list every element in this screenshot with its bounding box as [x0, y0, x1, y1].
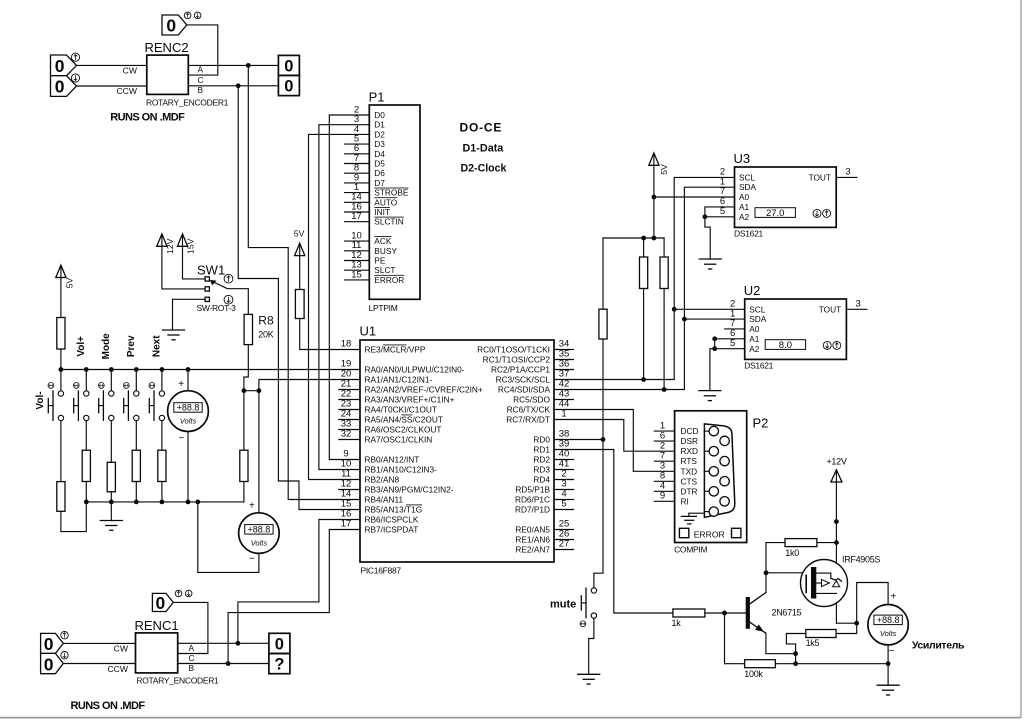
- svg-text:TOUT: TOUT: [819, 304, 841, 314]
- svg-text:RC6/TX/CK: RC6/TX/CK: [507, 405, 551, 415]
- junction node B: [236, 83, 241, 88]
- svg-text:SCL: SCL: [749, 304, 766, 314]
- svg-text:SLCTIN: SLCTIN: [374, 217, 404, 227]
- svg-text:5V: 5V: [65, 277, 75, 288]
- wire CCW display to RENC2: [77, 85, 147, 87]
- wire Vol+ resistor to bottom bus: [85, 482, 87, 502]
- svg-text:5: 5: [720, 206, 725, 217]
- logic probe display (RENC1 channel C): [152, 593, 173, 613]
- wire net RX (U1 pin1 to P2 RXD): [554, 420, 675, 452]
- wire U3 A2 to ground: [705, 217, 710, 259]
- svg-text:D1: D1: [374, 120, 385, 130]
- junction RA0 bus dots: [59, 367, 191, 372]
- svg-text:RD0: RD0: [533, 435, 550, 445]
- actuator icon down (U2): [823, 341, 831, 349]
- svg-text:SW1: SW1: [197, 263, 225, 278]
- svg-text:IRF4905S: IRF4905S: [842, 554, 880, 564]
- junction U3 A2: [703, 214, 708, 219]
- wire base node to 100k: [724, 613, 726, 664]
- svg-text:ERROR: ERROR: [374, 275, 404, 285]
- svg-text:RD5/P1B: RD5/P1B: [515, 485, 550, 495]
- junction bottom bus dots: [84, 500, 200, 505]
- svg-text:18: 18: [341, 339, 352, 350]
- actuator icon up (U3): [823, 209, 831, 217]
- P2 pin labels: [681, 426, 699, 506]
- svg-text:RXD: RXD: [681, 446, 699, 456]
- button Prev: [123, 335, 139, 450]
- svg-text:RE0/AN5: RE0/AN5: [515, 525, 550, 535]
- svg-text:SLCT: SLCT: [374, 265, 395, 275]
- wire RENC2 A pin to indicator box: [188, 64, 278, 66]
- button Vol-: [35, 370, 64, 482]
- svg-text:mute: mute: [550, 599, 576, 611]
- junction node A: [246, 63, 251, 68]
- power symbol 15V: [177, 234, 205, 279]
- transistor Q2 2N6715: [746, 593, 802, 634]
- svg-text:100k: 100k: [744, 669, 763, 679]
- wire 1k0 to gate node: [765, 543, 767, 573]
- svg-text:U1: U1: [360, 324, 377, 339]
- svg-text:C: C: [189, 653, 195, 663]
- svg-text:RA2/AN2/VREF-/CVREF/C2IN+: RA2/AN2/VREF-/CVREF/C2IN+: [365, 385, 483, 395]
- wire net RD0/mute (U1 pin38): [554, 439, 603, 441]
- svg-text:DTR: DTR: [681, 486, 698, 496]
- junction U2 SDA: [682, 317, 687, 322]
- svg-text:17: 17: [351, 211, 362, 222]
- U2 pin numbers: [730, 299, 861, 349]
- wire CCW display to RENC1: [63, 663, 135, 665]
- wire bottom bus to ground: [110, 502, 112, 521]
- svg-text:SDA: SDA: [739, 182, 757, 192]
- svg-text:PE: PE: [374, 256, 386, 266]
- svg-text:D6: D6: [374, 168, 385, 178]
- wire 1k5 right to output node: [836, 623, 857, 633]
- resistor 100k: [725, 660, 776, 679]
- wire 5V pullup rail: [603, 237, 664, 239]
- logic state indicator (RENC1 A): [269, 633, 290, 653]
- wire output node to voltmeter plus: [857, 583, 888, 624]
- svg-text:5V: 5V: [659, 164, 669, 175]
- wire U2 A2: [715, 348, 745, 350]
- junction voltmeter minus: [886, 661, 891, 666]
- svg-text:PIC16F887: PIC16F887: [361, 566, 402, 576]
- wire U2 SCL to bus: [674, 308, 745, 310]
- svg-text:R8: R8: [258, 314, 274, 328]
- actuator icon down (display B): [71, 74, 79, 82]
- svg-text:B: B: [198, 85, 204, 95]
- svg-text:+88.8: +88.8: [877, 615, 900, 625]
- svg-text:5: 5: [730, 338, 735, 349]
- svg-text:A0: A0: [749, 324, 760, 334]
- U1 right stub pins 34,35,36,43,40,41,2,3,4,5,25,26,27: [554, 350, 574, 550]
- svg-text:1k5: 1k5: [806, 638, 820, 648]
- svg-text:17: 17: [341, 519, 352, 530]
- svg-text:RC0/T1OSO/T1CKI: RC0/T1OSO/T1CKI: [477, 345, 550, 355]
- svg-text:A: A: [198, 65, 204, 75]
- power symbol 5V (button ladder): [56, 265, 75, 317]
- ground (DB9 shell): [681, 513, 704, 524]
- svg-text:TXD: TXD: [681, 466, 698, 476]
- logic probe display (RENC2 channel C): [162, 15, 187, 36]
- wire RA1 node to U1 pin20: [259, 380, 360, 391]
- svg-text:3: 3: [845, 167, 850, 178]
- svg-text:D7: D7: [374, 178, 385, 188]
- button Next: [149, 335, 165, 450]
- resistor (Mode ladder): [107, 462, 115, 492]
- wire Next resistor to bottom bus: [161, 482, 163, 502]
- svg-text:RB6/ICSPCLK: RB6/ICSPCLK: [365, 515, 419, 525]
- wire gate node to MOSFET gate: [766, 572, 806, 574]
- svg-text:RB2/AN8: RB2/AN8: [365, 475, 400, 485]
- svg-text:P1: P1: [369, 90, 385, 105]
- wire RENC1 B pin to indicator: [178, 663, 269, 665]
- svg-text:RE1/AN6: RE1/AN6: [515, 535, 550, 545]
- svg-text:COMPIM: COMPIM: [674, 545, 707, 555]
- svg-text:DS1621: DS1621: [744, 360, 773, 370]
- wire net D1 (P1 pin3 to U1 RB1 pin10): [319, 125, 369, 470]
- svg-text:8.0: 8.0: [779, 340, 792, 351]
- svg-text:+12V: +12V: [826, 457, 846, 467]
- resistor 1k (base): [672, 609, 746, 628]
- resistor 1k5: [806, 630, 837, 649]
- DB9 connector graphic: [704, 424, 734, 517]
- resistor (Vol- ladder): [57, 482, 65, 512]
- wire rail to SCL pullup resistor: [643, 238, 645, 257]
- junction rail at SCL resistor: [641, 236, 646, 241]
- actuator icon up (display C): [184, 12, 191, 19]
- junction 1k5 bottom: [793, 661, 798, 666]
- svg-text:RD2: RD2: [533, 455, 550, 465]
- wire U2 A1: [715, 339, 745, 349]
- svg-text:RB3/AN9/PGM/C12IN2-: RB3/AN9/PGM/C12IN2-: [365, 485, 454, 495]
- wire Prev resistor to bottom bus: [135, 482, 137, 502]
- svg-text:RB5/AN13/T1G: RB5/AN13/T1G: [365, 505, 423, 515]
- P1 stub pins 5-9,1,14,16,17,10-13,15: [345, 144, 370, 280]
- wire U3 A1: [705, 207, 735, 217]
- wire Mode resistor to bottom bus: [110, 492, 112, 502]
- P1 pin numbers: [351, 104, 362, 280]
- svg-text:RC1/T1OSI/CCP2: RC1/T1OSI/CCP2: [483, 355, 551, 365]
- svg-text:CTS: CTS: [681, 476, 698, 486]
- svg-text:3: 3: [856, 299, 861, 310]
- svg-text:1k: 1k: [672, 618, 682, 628]
- voltmeter (amplifier output): [868, 591, 908, 657]
- svg-text:TOUT: TOUT: [809, 172, 831, 182]
- U1 right pin numbers: [559, 339, 570, 550]
- svg-text:DSR: DSR: [681, 436, 699, 446]
- wire mute to ground: [589, 618, 594, 674]
- connector P1 (LPTPIM): [369, 90, 420, 313]
- junction +12V to 1k0: [834, 540, 839, 545]
- U3 pin numbers: [720, 167, 851, 217]
- junction on +12V rail: [834, 519, 839, 524]
- P2 pin numbers: [660, 420, 665, 501]
- svg-text:20K: 20K: [258, 330, 273, 340]
- wire SW1 pole3 to ground: [173, 299, 206, 330]
- U1 left pin labels: [365, 345, 483, 535]
- wire RA1 node bridge: [244, 390, 259, 392]
- svg-text:5: 5: [561, 499, 566, 510]
- svg-text:RENC2: RENC2: [145, 40, 189, 55]
- ground (U2): [699, 391, 721, 401]
- svg-text:RI: RI: [681, 496, 689, 506]
- logic probe display (RENC1 channel B state): [41, 653, 64, 674]
- U3 TOUT stub pin3: [836, 176, 857, 178]
- svg-text:D1-Data: D1-Data: [463, 143, 505, 155]
- svg-text:Mode: Mode: [101, 333, 112, 360]
- ERROR indicator squares: [679, 528, 741, 539]
- svg-text:−: −: [178, 433, 184, 444]
- svg-text:1k0: 1k0: [785, 548, 799, 558]
- ground (mute): [578, 674, 600, 684]
- power symbol 5V (MCLR pullup): [294, 229, 305, 290]
- wire net SCK/SCL (U1 pin37 to DS1621 bus): [554, 177, 735, 379]
- U2 TOUT stub pin3: [846, 308, 867, 310]
- resistor (SCL pullup): [640, 257, 648, 289]
- wire U3 A2: [705, 216, 735, 218]
- junction emitter node: [793, 651, 798, 656]
- svg-text:Vol-: Vol-: [35, 391, 46, 409]
- wire 100k to voltmeter minus node: [775, 663, 888, 665]
- wire RENC2 C pin to display C: [187, 25, 218, 75]
- wire 1k5 left leg: [786, 634, 805, 664]
- svg-text:−: −: [249, 554, 255, 565]
- actuator icon up (U2): [833, 341, 841, 349]
- svg-text:Volts: Volts: [880, 629, 897, 638]
- svg-text:+88.8: +88.8: [248, 525, 271, 535]
- svg-text:STROBE: STROBE: [374, 188, 409, 198]
- power symbol 5V (I2C pullups): [649, 153, 669, 238]
- button Vol+: [73, 336, 89, 450]
- wire voltmeter2 minus to bottom bus: [198, 502, 259, 573]
- P2 stub pins: [654, 431, 674, 501]
- actuator icon down (SW1): [224, 295, 233, 304]
- svg-text:Prev: Prev: [126, 335, 137, 357]
- power symbol 12V: [157, 234, 205, 289]
- svg-text:2N6715: 2N6715: [772, 608, 802, 618]
- SW1 wiper arm with arrowhead: [210, 280, 249, 315]
- wire 5V resistor to U1 pin18: [300, 319, 360, 350]
- svg-text:RA5/AN4/SS/C2OUT: RA5/AN4/SS/C2OUT: [365, 415, 443, 425]
- wire CW display to RENC2: [77, 64, 147, 66]
- svg-text:D2: D2: [374, 129, 385, 139]
- resistor (Prev ladder): [132, 450, 140, 481]
- svg-text:CW: CW: [114, 644, 129, 654]
- svg-text:+: +: [249, 501, 255, 512]
- U1 left pin numbers: [341, 339, 352, 530]
- svg-text:D0: D0: [374, 110, 385, 120]
- svg-text:RD6/P1C: RD6/P1C: [515, 495, 550, 505]
- actuator icon down (RENC1 display C): [185, 590, 192, 597]
- svg-text:D5: D5: [374, 159, 385, 169]
- resistor (RA1 ladder): [240, 450, 248, 481]
- resistor 1k0: [766, 539, 836, 558]
- wire emitter to 1k5 node: [766, 633, 796, 654]
- svg-text:9: 9: [660, 490, 665, 501]
- wire net SDI/SDA (U1 pin42 to DS1621 bus): [554, 187, 735, 389]
- logic state indicator (B): [278, 75, 299, 95]
- svg-text:?: ?: [274, 656, 284, 674]
- svg-text:RC7/RX/DT: RC7/RX/DT: [506, 415, 550, 425]
- serial port P2 (COMPIM): [674, 411, 768, 555]
- ground (amplifier): [877, 685, 899, 695]
- svg-text:27: 27: [559, 539, 570, 550]
- wire rail to SDA pullup resistor: [663, 238, 665, 257]
- svg-text:A0: A0: [739, 192, 750, 202]
- junction U2 A2: [712, 346, 717, 351]
- svg-text:0: 0: [44, 654, 54, 674]
- voltmeter (RA1 node): [239, 391, 280, 565]
- svg-text:Усилитель: Усилитель: [912, 640, 965, 652]
- svg-text:15: 15: [351, 269, 362, 280]
- svg-text:D4: D4: [374, 149, 385, 159]
- svg-text:RE2/AN7: RE2/AN7: [515, 545, 550, 555]
- wire net B (RENC2-B to U1 RB5 pin15): [238, 86, 360, 510]
- wire SDA pullup to pin42 net: [663, 289, 665, 390]
- svg-text:RUNS ON .MDF: RUNS ON .MDF: [110, 112, 185, 124]
- junction SCL pullup: [641, 377, 646, 382]
- wire SCL pullup to pin37 net: [643, 289, 645, 380]
- actuator icon down (display C): [194, 12, 201, 19]
- svg-text:B: B: [189, 663, 195, 673]
- logic probe display (RENC2 channel B state): [51, 76, 77, 97]
- junction U2 SCL: [672, 307, 677, 312]
- svg-text:A2: A2: [749, 344, 760, 354]
- wire net RD1 (U1 pin39 to 1k): [554, 450, 673, 614]
- power symbol +12V: [826, 457, 846, 624]
- voltmeter (RA0 bus): [168, 370, 209, 502]
- svg-text:U2: U2: [744, 283, 761, 298]
- junction U2 A1: [712, 336, 717, 341]
- svg-text:0: 0: [284, 58, 293, 76]
- junction SDA pullup: [662, 387, 667, 392]
- svg-text:RUNS ON .MDF: RUNS ON .MDF: [71, 700, 146, 712]
- svg-text:D2-Clock: D2-Clock: [461, 163, 507, 175]
- logic probe display (RENC1 channel A state): [41, 633, 64, 654]
- svg-text:RD1: RD1: [533, 445, 550, 455]
- svg-text:0: 0: [55, 77, 65, 97]
- wire RA0 bus to U1 pin19: [61, 369, 360, 371]
- junction gate node: [764, 570, 769, 575]
- svg-text:RA4/T0CKI/C1OUT: RA4/T0CKI/C1OUT: [365, 405, 437, 415]
- svg-text:AUTO: AUTO: [374, 197, 397, 207]
- svg-text:DO-CE: DO-CE: [460, 121, 503, 135]
- svg-text:LPTPIM: LPTPIM: [369, 303, 398, 313]
- wire U3 A0 to 5V: [654, 196, 735, 198]
- svg-text:RA6/OSC2/CLKOUT: RA6/OSC2/CLKOUT: [365, 425, 442, 435]
- junction A0 on 5V stem: [652, 195, 657, 200]
- wire RENC2 B pin to indicator box: [188, 85, 278, 87]
- junction node A (RENC1): [236, 641, 241, 646]
- wire RD0 pullup to mute node: [602, 339, 604, 440]
- svg-text:Next: Next: [152, 335, 163, 357]
- svg-text:−: −: [888, 646, 894, 657]
- junction base node: [722, 611, 727, 616]
- svg-text:RA0/AN0/ULPWU/C12IN0-: RA0/AN0/ULPWU/C12IN0-: [365, 365, 465, 375]
- logic probe display (RENC2 channel A state): [51, 55, 77, 76]
- resistor (Next ladder): [158, 450, 166, 481]
- svg-text:A: A: [189, 643, 195, 653]
- wire net D2 (P1 pin4 to U1 RB2 pin11): [309, 134, 370, 479]
- wire net D0 (P1 pin2 to U1 RB0 pin9): [329, 115, 369, 460]
- resistor (5V to RA0 bus): [57, 318, 65, 350]
- svg-text:SDA: SDA: [749, 314, 767, 324]
- wire RENC1 C pin to display C: [173, 602, 208, 653]
- svg-text:0: 0: [284, 78, 293, 96]
- wire RA1 node down to ladder resistor: [243, 391, 245, 451]
- wire MOSFET drain to output node: [836, 622, 856, 624]
- button mute: [550, 588, 597, 627]
- svg-text:RC3/SCK/SCL: RC3/SCK/SCL: [496, 375, 551, 385]
- actuator icon up (display A): [71, 53, 79, 61]
- junction RA1 node left: [242, 388, 247, 393]
- junction node B (RENC1): [226, 661, 231, 666]
- svg-text:RA7/OSC1/CLKIN: RA7/OSC1/CLKIN: [365, 435, 433, 445]
- actuator icon up (RENC1 display A): [61, 632, 68, 639]
- resistor (RD0 mute pullup): [599, 309, 607, 339]
- wire net RB7 (U1 pin17 to RENC1 B): [228, 530, 360, 664]
- svg-text:32: 32: [341, 429, 352, 440]
- svg-text:ROTARY_ENCODER1: ROTARY_ENCODER1: [146, 98, 229, 108]
- bottom ground bus: [86, 501, 244, 503]
- svg-text:+: +: [178, 379, 184, 390]
- svg-text:5V: 5V: [294, 229, 305, 239]
- svg-text:0: 0: [44, 634, 54, 654]
- svg-text:Volts: Volts: [180, 417, 197, 426]
- MOSFET Q1 IRF4905S: [801, 554, 881, 606]
- svg-text:A2: A2: [739, 212, 750, 222]
- junction output node: [854, 621, 859, 626]
- wire U2 SDA to bus: [684, 318, 744, 320]
- wire RD0 node down to mute: [594, 440, 603, 588]
- svg-text:ERROR: ERROR: [694, 529, 725, 539]
- svg-text:P2: P2: [753, 416, 769, 431]
- svg-text:A1: A1: [739, 202, 750, 212]
- wire net RB6 (U1 pin16 to RENC1 A): [238, 520, 360, 644]
- wire net TX (U1 pin44 to P2 TXD): [554, 410, 675, 472]
- svg-text:CCW: CCW: [116, 86, 137, 96]
- resistor (SDA pullup): [660, 257, 668, 289]
- svg-text:RB4/AN11: RB4/AN11: [365, 495, 404, 505]
- svg-text:0: 0: [55, 56, 65, 76]
- svg-text:DCD: DCD: [681, 426, 699, 436]
- logic state indicator (A): [278, 55, 299, 75]
- sheet edge lines: [1020, 0, 1022, 718]
- svg-text:RE3/MCLR/VPP: RE3/MCLR/VPP: [365, 345, 426, 355]
- temperature sensor U2 (DS1621): [744, 283, 847, 370]
- rotary switch SW1 (SW-ROT-3): [197, 263, 237, 314]
- svg-text:RC5/SDO: RC5/SDO: [513, 395, 550, 405]
- svg-text:RB7/ICSPDAT: RB7/ICSPDAT: [365, 525, 419, 535]
- button Mode: [98, 333, 114, 462]
- svg-text:RB1/AN10/C12IN3-: RB1/AN10/C12IN3-: [365, 465, 438, 475]
- wire gate node to collector: [765, 573, 767, 593]
- U3 display 27.0: [755, 208, 795, 219]
- junction rail at 5V stem: [652, 236, 657, 241]
- svg-text:0: 0: [156, 593, 166, 613]
- svg-text:CCW: CCW: [107, 664, 128, 674]
- actuator icon down (U3): [813, 209, 821, 217]
- svg-text:RD7/P1D: RD7/P1D: [515, 505, 550, 515]
- svg-text:INIT: INIT: [374, 207, 390, 217]
- temperature sensor U3 (DS1621): [734, 151, 837, 238]
- svg-text:1: 1: [561, 409, 566, 420]
- svg-text:SCL: SCL: [739, 172, 756, 182]
- svg-text:C: C: [198, 75, 204, 85]
- resistor (MCLR pullup): [295, 290, 304, 319]
- wire R8 bottom to RA1 node: [244, 345, 248, 391]
- microcontroller U1 (PIC16F887): [360, 324, 555, 576]
